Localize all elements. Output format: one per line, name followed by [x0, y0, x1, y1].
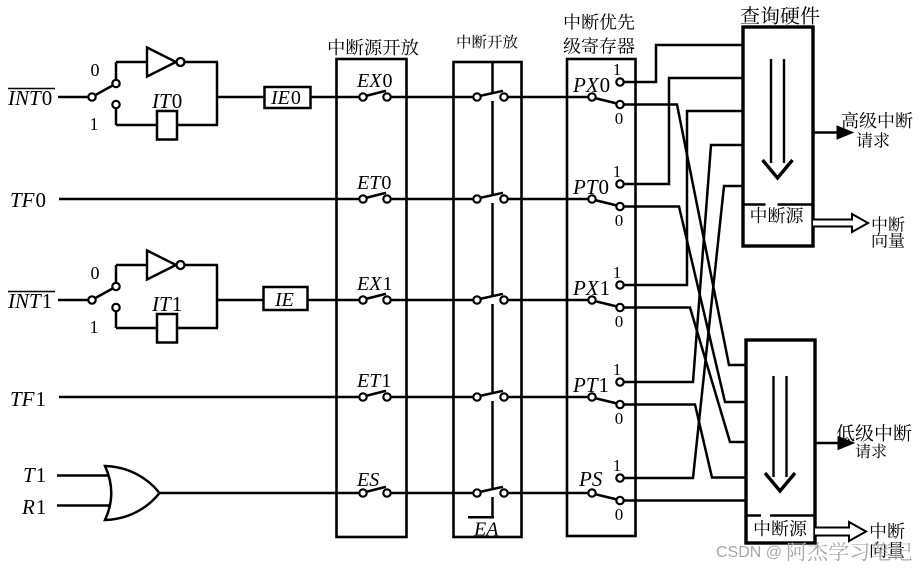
svg-text:R1: R1 — [21, 495, 46, 519]
svg-text:IE0: IE0 — [270, 87, 301, 109]
svg-text:IT0: IT0 — [151, 89, 182, 113]
svg-text:0: 0 — [91, 263, 100, 283]
svg-text:0: 0 — [615, 505, 624, 524]
svg-text:1: 1 — [613, 360, 622, 379]
svg-text:ET0: ET0 — [356, 172, 391, 194]
svg-text:PS: PS — [578, 467, 603, 491]
svg-text:0: 0 — [615, 211, 624, 230]
svg-text:PX1: PX1 — [572, 276, 610, 300]
svg-text:1: 1 — [613, 60, 622, 79]
svg-text:ET1: ET1 — [356, 370, 391, 392]
svg-text:PT0: PT0 — [572, 175, 609, 199]
svg-text:PX0: PX0 — [572, 73, 610, 97]
svg-text:ES: ES — [356, 469, 379, 491]
svg-text:0: 0 — [615, 409, 624, 428]
svg-text:T1: T1 — [23, 463, 46, 487]
svg-text:EX0: EX0 — [356, 70, 392, 92]
svg-text:1: 1 — [613, 162, 622, 181]
svg-text:PT1: PT1 — [572, 373, 609, 397]
svg-text:CSDN @: CSDN @ — [716, 544, 782, 561]
svg-text:0: 0 — [91, 60, 100, 80]
svg-text:INT0: INT0 — [7, 86, 52, 110]
svg-text:1: 1 — [613, 456, 622, 475]
svg-text:EX1: EX1 — [356, 273, 392, 295]
svg-text:IE: IE — [274, 289, 294, 311]
svg-text:1: 1 — [613, 263, 622, 282]
svg-text:0: 0 — [615, 312, 624, 331]
svg-text:TF1: TF1 — [10, 387, 46, 411]
svg-text:1: 1 — [90, 317, 99, 337]
svg-text:IT1: IT1 — [151, 292, 182, 316]
svg-text:0: 0 — [615, 109, 624, 128]
svg-text:EA: EA — [473, 519, 499, 541]
svg-text:INT1: INT1 — [7, 289, 52, 313]
svg-text:TF0: TF0 — [10, 188, 46, 212]
svg-text:1: 1 — [90, 114, 99, 134]
